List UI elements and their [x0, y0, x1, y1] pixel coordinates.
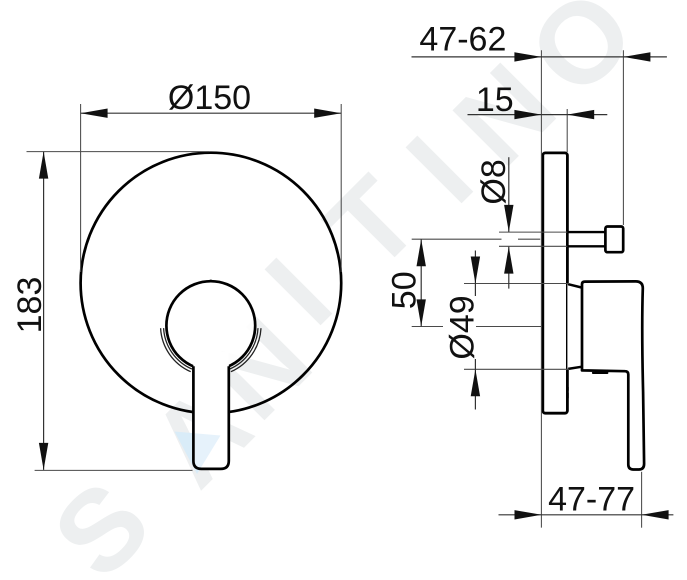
ext lines side	[540, 50, 542, 527]
diverter stem (side) thin lines through plate	[412, 232, 568, 246]
handle (knob + lever) side profile	[582, 281, 644, 469]
watermark blue triangle (outside stem)	[175, 432, 221, 475]
svg-text:50: 50	[385, 271, 423, 309]
svg-text:183: 183	[11, 277, 49, 334]
arrowheads	[39, 52, 669, 519]
lip detail under knob	[593, 372, 607, 374]
collar between plate and knob	[567, 284, 582, 369]
big circle (front escutcheon Ø150)	[81, 153, 342, 414]
front lever stem outline	[193, 366, 228, 469]
svg-text:47-62: 47-62	[419, 20, 506, 58]
double arcs around knob	[161, 328, 261, 372]
wall plate	[543, 153, 568, 413]
diverter stem (side) thick	[569, 233, 606, 245]
screw dashes on plate right face	[566, 387, 568, 398]
knob top nub	[209, 280, 213, 283]
lever knob circle	[166, 281, 255, 370]
svg-text:Ø8: Ø8	[475, 159, 513, 204]
front lever stem fill	[193, 352, 228, 469]
ext lines 183	[27, 151, 210, 153]
svg-text:Ø49: Ø49	[444, 295, 482, 359]
svg-text:Ø150: Ø150	[168, 79, 251, 117]
svg-text:S: S	[29, 457, 174, 580]
ext lines front Ø150	[80, 104, 82, 272]
svg-text:47-77: 47-77	[548, 481, 635, 519]
diverter cap	[605, 227, 623, 253]
svg-text:15: 15	[476, 81, 514, 119]
dim lines	[81, 112, 342, 114]
dimension texts	[11, 20, 635, 518]
